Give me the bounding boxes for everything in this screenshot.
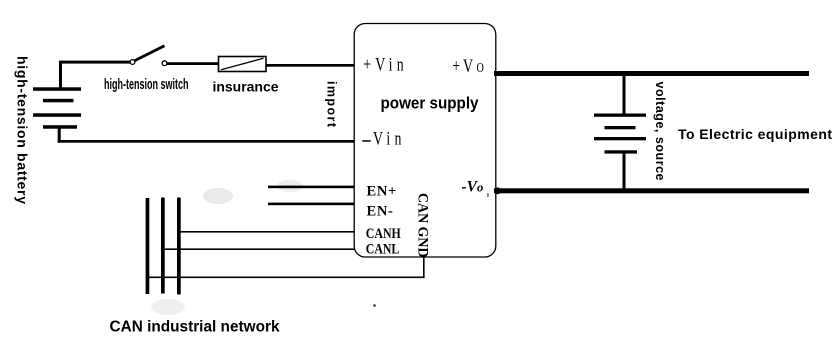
- pin label -Vin minus dash: [362, 140, 370, 142]
- svg-text:CANL: CANL: [366, 241, 400, 257]
- battery BT1 plate 2 (short): [43, 99, 74, 103]
- wire EN- stub: [268, 203, 355, 206]
- battery BT1 plate 4 (short): [43, 125, 77, 129]
- svg-text:insurance: insurance: [213, 79, 279, 95]
- capacitor C1 plate 2 (short): [605, 126, 636, 129]
- capacitor C1 plate 4 (short): [605, 150, 638, 153]
- wire switch to fuse: [167, 62, 219, 65]
- capacitor C1 plate 1 (long): [594, 114, 646, 117]
- wire battery+ up lead: [59, 62, 62, 88]
- svg-text:CAN industrial network: CAN industrial network: [110, 319, 280, 336]
- svg-text:EN+: EN+: [367, 184, 398, 200]
- wire battery- down lead: [58, 127, 61, 143]
- switch S1 blade: [134, 46, 165, 61]
- svg-text:voltage, source: voltage, source: [653, 82, 667, 181]
- wire -Vo output start junction dot: [494, 187, 501, 194]
- switch S1 left terminal: [130, 60, 135, 65]
- wire +Vo output: [494, 71, 809, 76]
- CAN bus line 2: [161, 198, 165, 294]
- tick mark below -Vo: [487, 193, 488, 197]
- wire battery- to -Vin: [58, 140, 356, 143]
- svg-text:Vin: Vin: [373, 127, 406, 149]
- svg-text:+Vin: +Vin: [363, 53, 408, 75]
- CAN bus line 1: [146, 198, 150, 294]
- svg-text:EN-: EN-: [367, 203, 394, 219]
- fuse F1 body: [219, 57, 267, 72]
- wire -Vo output: [494, 188, 809, 193]
- wire battery+ to switch: [59, 61, 131, 64]
- stray dot artifact: [373, 304, 376, 307]
- capacitor C1 bottom lead: [623, 154, 626, 189]
- svg-text:high-tension switch: high-tension switch: [104, 77, 189, 93]
- svg-text:high-tension battery: high-tension battery: [15, 56, 31, 204]
- svg-text:To Electric equipment: To Electric equipment: [678, 126, 832, 142]
- svg-text:CAN GND: CAN GND: [415, 193, 431, 258]
- svg-text:CANH: CANH: [366, 226, 402, 242]
- switch S1 right terminal: [162, 61, 167, 66]
- capacitor C1 plate 3 (long): [594, 137, 646, 140]
- power supply module U1 box: [354, 24, 496, 258]
- wire CANH: [178, 231, 355, 233]
- battery BT1 plate 1 (long): [33, 87, 81, 91]
- wire fuse to +Vin: [266, 64, 355, 67]
- fuse F1 diagonal: [221, 58, 264, 70]
- battery BT1 plate 3 (long): [33, 113, 81, 117]
- CAN bus line 3: [177, 198, 181, 295]
- capacitor/battery C1 top lead: [623, 76, 626, 114]
- svg-text:import: import: [325, 81, 339, 128]
- wire CAN GND horizontal: [147, 277, 425, 279]
- wire EN+ stub: [268, 186, 355, 189]
- wire CAN GND vertical: [423, 257, 425, 278]
- svg-text:power supply: power supply: [381, 94, 479, 113]
- svg-text:-Vo: -Vo: [462, 179, 484, 196]
- wire CANL: [163, 248, 355, 250]
